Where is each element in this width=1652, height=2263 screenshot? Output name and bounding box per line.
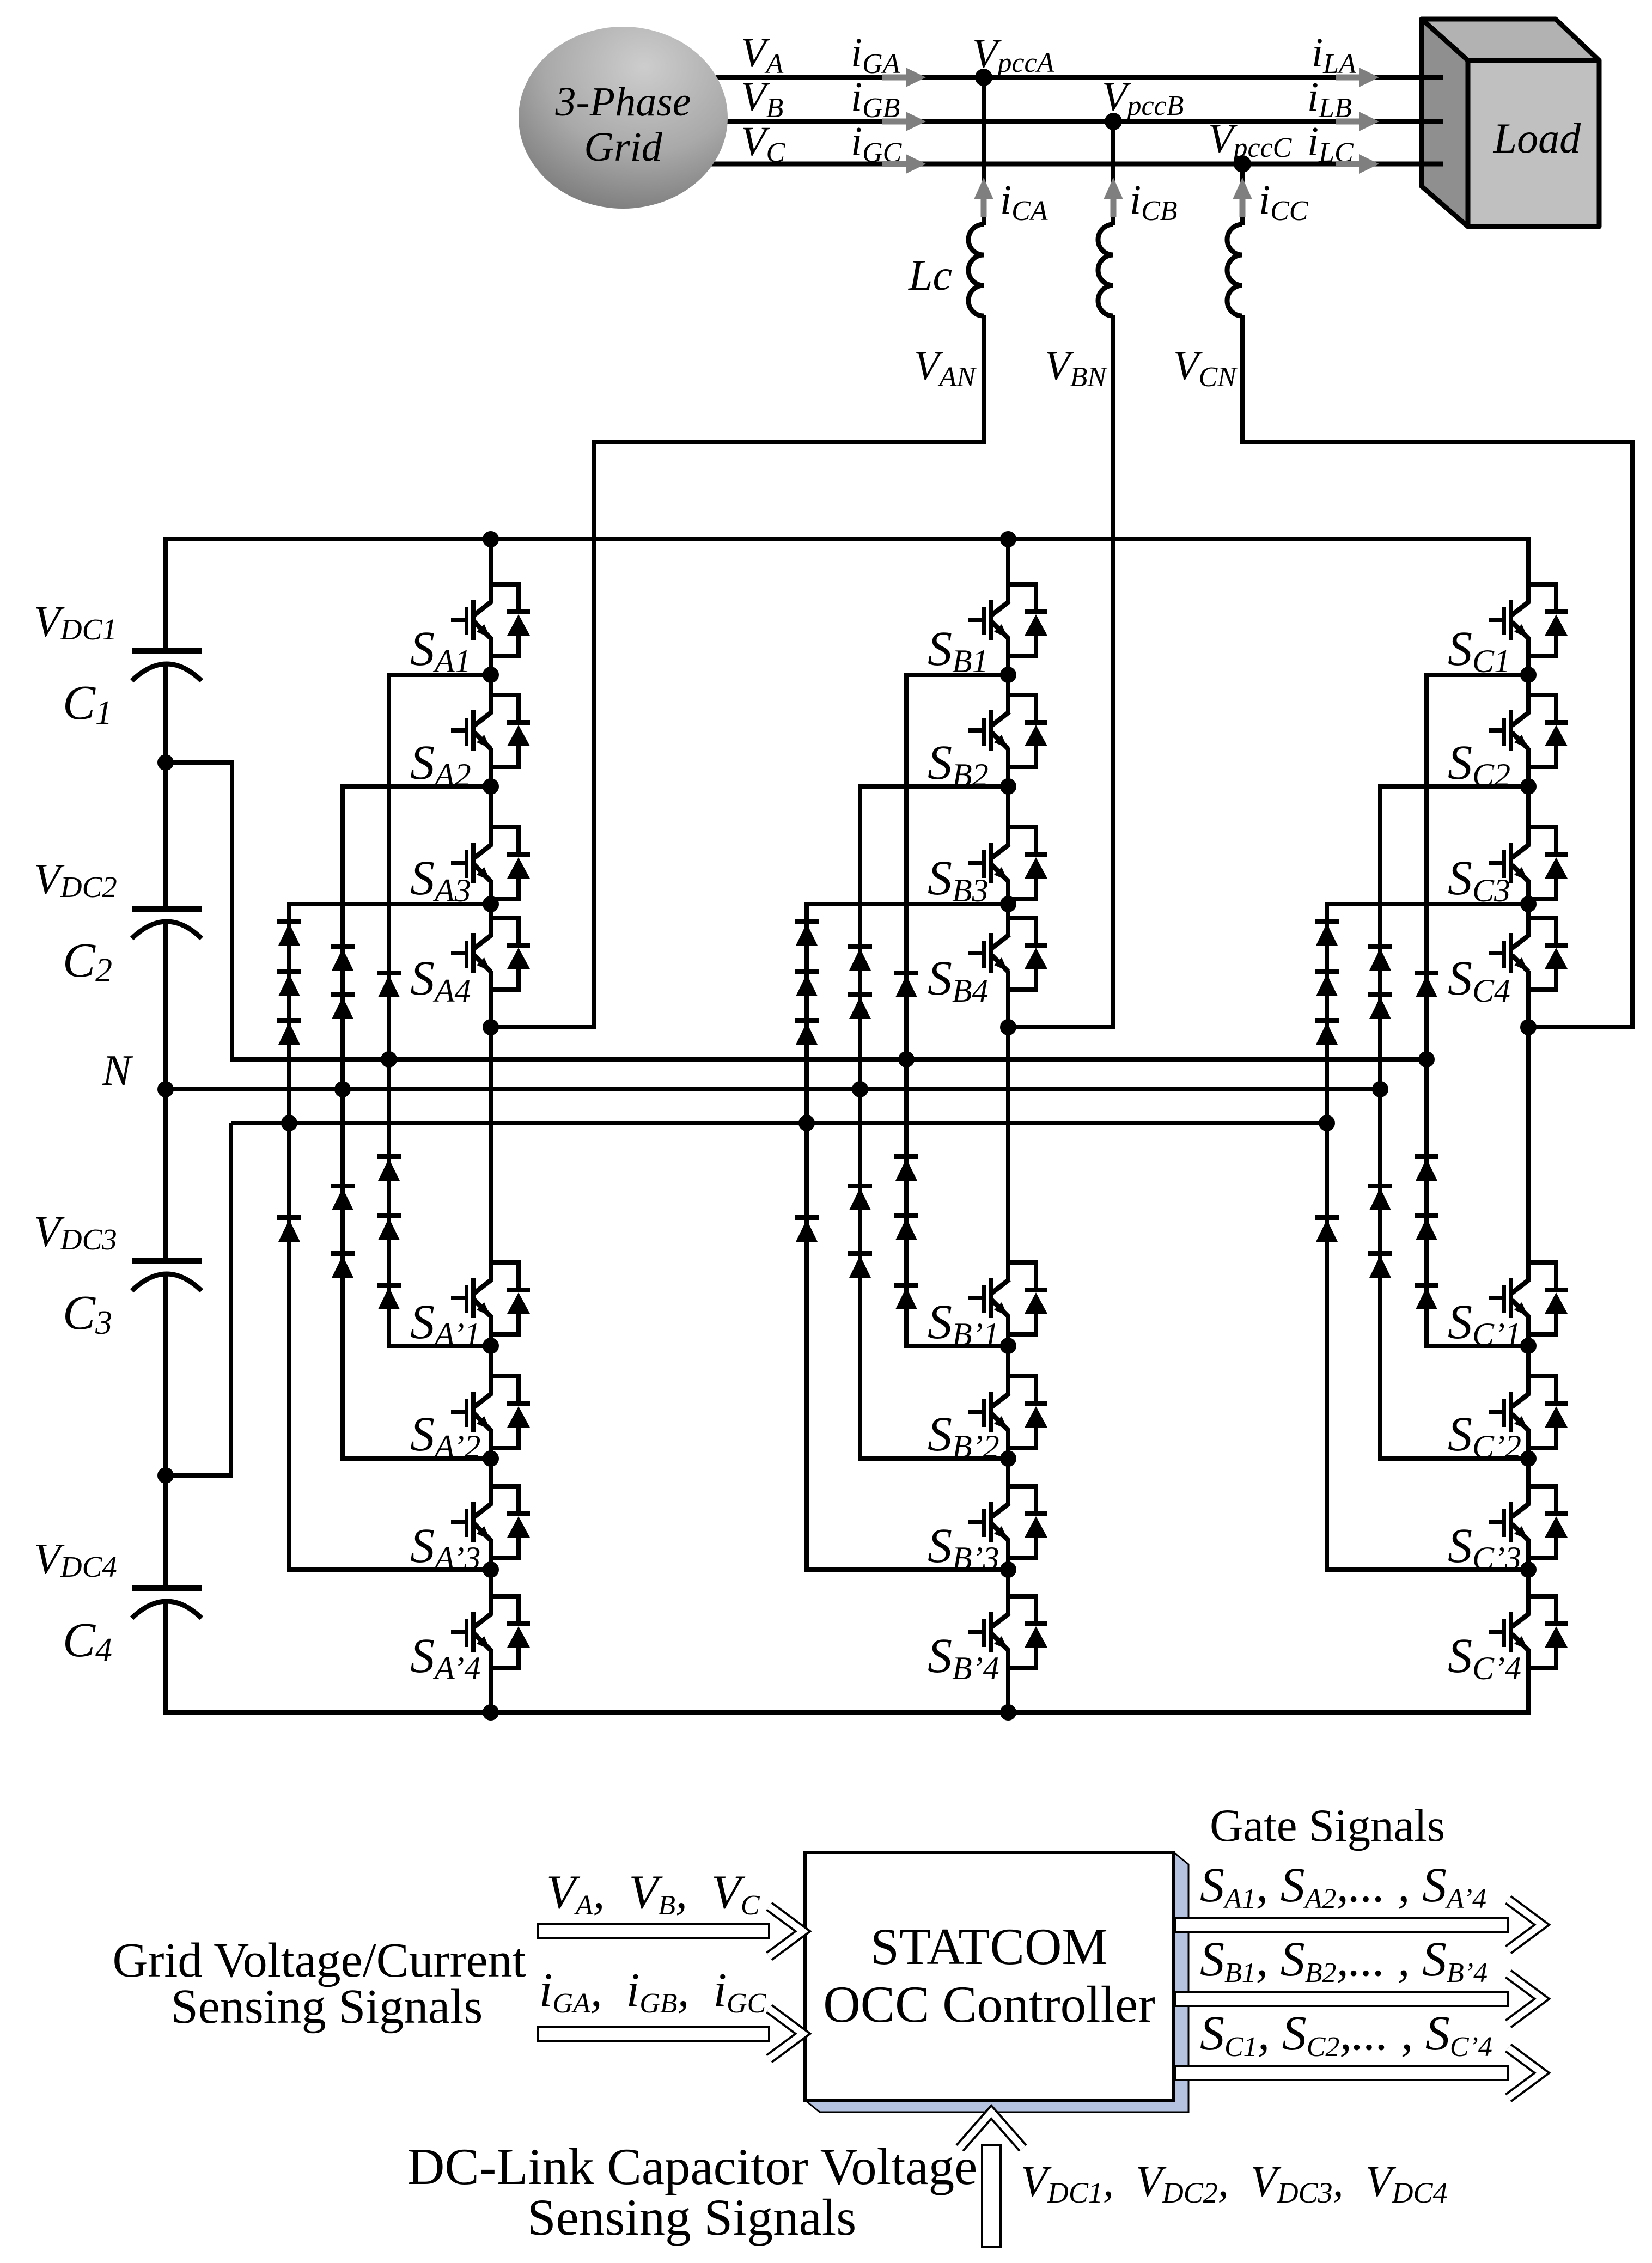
- wire C leg segment below SC3: [1526, 880, 1531, 906]
- clamp diode phase B lower chain1 #2: [894, 1213, 918, 1240]
- node phase C S1p-S2p: [1520, 1338, 1537, 1354]
- wire clamp chain 2 vertical phase C: [1378, 786, 1382, 1459]
- inductor Lc phase B: [1098, 224, 1113, 316]
- node chain3-line3 phase B: [798, 1115, 815, 1131]
- wire clamp chain to junction SC’3-SC’4: [1325, 1567, 1528, 1572]
- svg-text:Lc: Lc: [908, 252, 952, 300]
- wire clamp chain 1 vertical phase B: [904, 675, 909, 1346]
- wire B leg segment below SB’1: [1006, 1315, 1010, 1348]
- clamp diode phase C upper chain1 #1: [1415, 971, 1438, 997]
- clamp diode phase B upper chain3 #3: [795, 1018, 819, 1045]
- wire junction SC3-SC4 to clamp chain: [1325, 902, 1528, 906]
- wire tap1 to +1 bus: [166, 763, 232, 1059]
- transistor SC1 (IGBT with antiparallel diode): [1489, 582, 1568, 658]
- svg-text:Grid: Grid: [584, 124, 663, 170]
- wire junction SC1-SC2 to clamp chain: [1424, 673, 1528, 677]
- clamp diode phase A upper chain2 #1: [331, 944, 355, 971]
- wire B leg segment above SB’1: [1006, 1027, 1010, 1280]
- current arrow iCB: [1104, 178, 1123, 217]
- wire clamp chain to junction SA’2-SA’3: [340, 1456, 491, 1461]
- node phase B output: [1000, 1019, 1016, 1035]
- wire clamp chain to junction SC’1-SC’2: [1424, 1344, 1528, 1348]
- svg-text:Gate Signals: Gate Signals: [1210, 1800, 1445, 1851]
- current arrow iCA: [974, 178, 993, 217]
- output arrow gate signals phase A: [1175, 1918, 1508, 1932]
- wire +1 clamp bus (line1): [230, 1057, 1427, 1062]
- wire N bus: [166, 1087, 1380, 1091]
- node VpccB: [1105, 113, 1122, 130]
- current arrow iLC: [1336, 154, 1379, 174]
- wire grid phase B line (VB to load): [681, 119, 1443, 124]
- clamp diode phase B upper chain2 #2: [848, 992, 872, 1019]
- wire B leg segment below SB1: [1006, 637, 1010, 677]
- node chain2-N phase B: [852, 1081, 868, 1097]
- input arrow grid currents: [538, 2027, 769, 2041]
- wire inductor B to phase B output: [1008, 315, 1113, 1027]
- node phase C S3-S4: [1520, 896, 1537, 912]
- node bottom rail phase B: [1000, 1704, 1016, 1721]
- wire B leg segment below SB’2: [1006, 1429, 1010, 1461]
- node chain1-line1 phase C: [1418, 1051, 1435, 1068]
- transistor SC’1 (IGBT with antiparallel diode): [1489, 1260, 1568, 1337]
- wire C leg segment above SC’3: [1526, 1459, 1531, 1504]
- clamp diode phase C lower chain1 #3: [1415, 1283, 1438, 1309]
- wire junction SA2-SA3 to clamp chain: [340, 784, 491, 789]
- wire clamp chain to junction SA’1-SA’2: [387, 1344, 491, 1348]
- wire clamp chain 3 vertical phase C: [1325, 904, 1329, 1570]
- node phase A S2-S3: [483, 778, 499, 795]
- clamp diode phase B upper chain1 #1: [894, 971, 918, 997]
- node tap3 (C3-C4 junction): [157, 1467, 174, 1484]
- wire C leg segment below SC’1: [1526, 1315, 1531, 1348]
- wire VpccA to inductor A: [982, 77, 986, 225]
- transistor SA4 (IGBT with antiparallel diode): [451, 916, 530, 992]
- wire clamp chain to junction SA’3-SA’4: [287, 1567, 491, 1572]
- wire C leg segment above SC1: [1526, 539, 1531, 602]
- svg-text:3-Phase: 3-Phase: [554, 79, 691, 125]
- clamp diode phase C lower chain2 #1: [1368, 1184, 1392, 1210]
- wire left DC bus segment 5: [163, 1601, 168, 1715]
- transistor SC’3 (IGBT with antiparallel diode): [1489, 1484, 1568, 1560]
- current arrow iLB: [1336, 112, 1379, 131]
- wire clamp chain to junction SB’2-SB’3: [858, 1456, 1008, 1461]
- transistor SC’2 (IGBT with antiparallel diode): [1489, 1374, 1568, 1450]
- transistor SB4 (IGBT with antiparallel diode): [968, 916, 1047, 992]
- wire C leg segment above SC’1: [1526, 1027, 1531, 1280]
- wire A leg segment below SA’3: [489, 1539, 493, 1572]
- clamp diode phase C upper chain3 #2: [1315, 969, 1339, 996]
- wire A leg segment below SA4: [489, 971, 493, 1029]
- node chain2-N phase A: [334, 1081, 351, 1097]
- node chain1-line1 phase B: [898, 1051, 915, 1068]
- wire C leg segment above SC2: [1526, 675, 1531, 713]
- node chain2-N phase C: [1372, 1081, 1388, 1097]
- clamp diode phase A upper chain2 #2: [331, 992, 355, 1019]
- wire B leg segment above SB1: [1006, 539, 1010, 602]
- transistor SA’4 (IGBT with antiparallel diode): [451, 1594, 530, 1670]
- wire B leg segment below SB2: [1006, 748, 1010, 789]
- wire bottom DC rail: [163, 1710, 1531, 1715]
- wire A leg segment above SA’1: [489, 1027, 493, 1280]
- node phase B S2-S3: [1000, 778, 1016, 795]
- wire load stub B: [1422, 119, 1443, 124]
- transistor SB1 (IGBT with antiparallel diode): [968, 582, 1047, 658]
- transistor SC2 (IGBT with antiparallel diode): [1489, 693, 1568, 769]
- wire left DC bus segment 3: [163, 922, 168, 1258]
- wire A leg segment above SA3: [489, 786, 493, 845]
- clamp diode phase B lower chain3 #1: [795, 1215, 819, 1242]
- transistor SB’3 (IGBT with antiparallel diode): [968, 1484, 1047, 1560]
- wire C leg segment above SC4: [1526, 904, 1531, 936]
- transistor SA3 (IGBT with antiparallel diode): [451, 825, 530, 901]
- node phase B S2p-S3p: [1000, 1450, 1016, 1467]
- wire A leg segment below SA’1: [489, 1315, 493, 1348]
- wire B leg segment above SB’4: [1006, 1570, 1010, 1614]
- node phase B S3p-S4p: [1000, 1561, 1016, 1578]
- wire clamp chain 1 vertical phase A: [387, 675, 391, 1346]
- clamp diode phase C upper chain2 #1: [1368, 944, 1392, 971]
- transistor SB’4 (IGBT with antiparallel diode): [968, 1594, 1047, 1670]
- controller shadow: [805, 1852, 1188, 2112]
- node VpccC: [1234, 155, 1251, 173]
- capacitor C1: [132, 648, 202, 654]
- wire left DC bus segment 1: [163, 537, 168, 648]
- wire B leg segment above SB’3: [1006, 1459, 1010, 1504]
- transistor SC’4 (IGBT with antiparallel diode): [1489, 1594, 1568, 1670]
- current arrow iGB: [882, 112, 926, 131]
- svg-text:Load: Load: [1493, 114, 1581, 162]
- clamp diode phase B lower chain2 #1: [848, 1184, 872, 1210]
- wire C leg segment below SC2: [1526, 748, 1531, 789]
- clamp diode phase B lower chain2 #2: [848, 1251, 872, 1278]
- wire VpccB to inductor B: [1111, 121, 1115, 225]
- svg-text:Sensing Signals: Sensing Signals: [171, 1980, 483, 2034]
- wire load stub A: [1422, 75, 1443, 80]
- clamp diode phase A lower chain1 #1: [377, 1154, 401, 1181]
- node phase C S1-S2: [1520, 667, 1537, 683]
- clamp diode phase C lower chain1 #2: [1415, 1213, 1438, 1240]
- op-amp STATCOM OCC controller block: [805, 1852, 1174, 2100]
- wire clamp chain 1 vertical phase C: [1424, 675, 1429, 1346]
- wire A leg segment below SA’4: [489, 1649, 493, 1715]
- capacitor C4: [132, 1585, 202, 1591]
- wire B leg segment below SB4: [1006, 971, 1010, 1029]
- wire A leg segment below SA3: [489, 880, 493, 906]
- node VpccA: [975, 69, 992, 86]
- wire -1 clamp bus (line3): [231, 1121, 1327, 1125]
- clamp diode phase B lower chain1 #3: [894, 1283, 918, 1309]
- wire A leg segment below SA2: [489, 748, 493, 789]
- wire junction SC2-SC3 to clamp chain: [1378, 784, 1528, 789]
- node tap1 (C1-C2 junction): [157, 754, 174, 771]
- transistor SC3 (IGBT with antiparallel diode): [1489, 825, 1568, 901]
- wire clamp chain 2 vertical phase B: [858, 786, 862, 1459]
- svg-text:DC-Link Capacitor Voltage: DC-Link Capacitor Voltage: [407, 2138, 978, 2195]
- wire VpccC to inductor C: [1240, 164, 1245, 225]
- wire clamp chain to junction SB’1-SB’2: [904, 1344, 1008, 1348]
- node chain1-line1 phase A: [381, 1051, 397, 1068]
- node phase C S2-S3: [1520, 778, 1537, 795]
- clamp diode phase A lower chain1 #2: [377, 1213, 401, 1240]
- output arrow gate signals phase C: [1175, 2066, 1508, 2080]
- wire C leg segment below SC1: [1526, 637, 1531, 677]
- node bottom rail phase A: [483, 1704, 499, 1721]
- node top rail phase A: [483, 531, 499, 547]
- clamp diode phase A upper chain3 #1: [277, 919, 301, 946]
- clamp diode phase A lower chain3 #1: [277, 1215, 301, 1242]
- wire left DC bus segment 4: [163, 1274, 168, 1585]
- capacitor C2: [132, 906, 202, 912]
- node phase A S2p-S3p: [483, 1450, 499, 1467]
- wire B leg segment below SB3: [1006, 880, 1010, 906]
- clamp diode phase B upper chain3 #2: [795, 969, 819, 996]
- capacitor C3: [132, 1258, 202, 1264]
- wire C leg segment below SC’2: [1526, 1429, 1531, 1461]
- current arrow iCC: [1233, 178, 1252, 217]
- wire A leg segment above SA1: [489, 539, 493, 602]
- transistor SA2 (IGBT with antiparallel diode): [451, 693, 530, 769]
- wire tap3 to -1 bus: [166, 1123, 231, 1475]
- node phase C S2p-S3p: [1520, 1450, 1537, 1467]
- wire C leg segment above SC3: [1526, 786, 1531, 845]
- wire C leg segment below SC’4: [1526, 1649, 1531, 1715]
- wire top DC rail: [163, 537, 1531, 541]
- wire junction SA3-SA4 to clamp chain: [287, 902, 491, 906]
- wire B leg segment below SB’3: [1006, 1539, 1010, 1572]
- wire grid phase C line (VC to load): [681, 162, 1443, 167]
- wire B leg segment above SB’2: [1006, 1346, 1010, 1394]
- wire inductor C to phase C output: [1242, 315, 1632, 1027]
- node phase A output: [483, 1019, 499, 1035]
- inductor Lc phase C: [1227, 224, 1242, 316]
- clamp diode phase C lower chain1 #1: [1415, 1154, 1438, 1181]
- transistor SB2 (IGBT with antiparallel diode): [968, 693, 1047, 769]
- transistor SB’2 (IGBT with antiparallel diode): [968, 1374, 1047, 1450]
- clamp diode phase B upper chain2 #1: [848, 944, 872, 971]
- wire A leg segment above SA4: [489, 904, 493, 936]
- wire clamp chain to junction SC’2-SC’3: [1378, 1456, 1528, 1461]
- node phase C output: [1520, 1019, 1537, 1035]
- node phase C S3p-S4p: [1520, 1561, 1537, 1578]
- wire B leg segment above SB2: [1006, 675, 1010, 713]
- wire B leg segment above SB4: [1006, 904, 1010, 936]
- wire clamp chain 3 vertical phase A: [287, 904, 291, 1570]
- node phase A S3p-S4p: [483, 1561, 499, 1578]
- input arrow DC-link voltages: [982, 2145, 1001, 2247]
- svg-text:N: N: [102, 1047, 134, 1095]
- wire C leg segment below SC4: [1526, 971, 1531, 1029]
- clamp diode phase C upper chain3 #3: [1315, 1018, 1339, 1045]
- transistor SB3 (IGBT with antiparallel diode): [968, 825, 1047, 901]
- svg-text:OCC Controller: OCC Controller: [823, 1975, 1155, 2033]
- node phase A S1p-S2p: [483, 1338, 499, 1354]
- wire left DC bus segment 2: [163, 664, 168, 906]
- node chain3-line3 phase A: [281, 1115, 297, 1131]
- current arrow iGC: [882, 154, 926, 174]
- wire A leg segment above SA2: [489, 675, 493, 713]
- node phase B S1-S2: [1000, 667, 1016, 683]
- clamp diode phase B upper chain3 #1: [795, 919, 819, 946]
- wire inductor A to phase A output: [491, 315, 984, 1027]
- transistor SB’1 (IGBT with antiparallel diode): [968, 1260, 1047, 1337]
- wire A leg segment above SA’4: [489, 1570, 493, 1614]
- wire A leg segment below SA1: [489, 637, 493, 677]
- wire clamp chain to junction SB’3-SB’4: [804, 1567, 1008, 1572]
- wire clamp chain 2 vertical phase A: [340, 786, 345, 1459]
- node phase B S1p-S2p: [1000, 1338, 1016, 1354]
- clamp diode phase A upper chain3 #2: [277, 969, 301, 996]
- input arrow grid voltages: [538, 1924, 769, 1938]
- wire clamp chain 3 vertical phase B: [804, 904, 809, 1570]
- node N (left bus): [157, 1081, 174, 1097]
- clamp diode phase A upper chain1 #1: [377, 971, 401, 997]
- wire A leg segment above SA’3: [489, 1459, 493, 1504]
- clamp diode phase A lower chain2 #2: [331, 1251, 355, 1278]
- wire C leg segment above SC’4: [1526, 1570, 1531, 1614]
- wire B leg segment above SB3: [1006, 786, 1010, 845]
- transistor SA’2 (IGBT with antiparallel diode): [451, 1374, 530, 1450]
- svg-text:Sensing Signals: Sensing Signals: [527, 2188, 856, 2246]
- clamp diode phase A lower chain1 #3: [377, 1283, 401, 1309]
- wire junction SB2-SB3 to clamp chain: [858, 784, 1008, 789]
- clamp diode phase C lower chain2 #2: [1368, 1251, 1392, 1278]
- clamp diode phase C upper chain2 #2: [1368, 992, 1392, 1019]
- wire A leg segment above SA’2: [489, 1346, 493, 1394]
- clamp diode phase C upper chain3 #1: [1315, 919, 1339, 946]
- wire junction SB3-SB4 to clamp chain: [804, 902, 1008, 906]
- clamp diode phase B lower chain1 #1: [894, 1154, 918, 1181]
- clamp diode phase A upper chain3 #3: [277, 1018, 301, 1045]
- node top rail phase B: [1000, 531, 1016, 547]
- wire B leg segment below SB’4: [1006, 1649, 1010, 1715]
- current arrow iLA: [1336, 68, 1379, 87]
- transistor SA’3 (IGBT with antiparallel diode): [451, 1484, 530, 1560]
- wire C leg segment above SC’2: [1526, 1346, 1531, 1394]
- transistor SA’1 (IGBT with antiparallel diode): [451, 1260, 530, 1337]
- node phase A S1-S2: [483, 667, 499, 683]
- node phase B S3-S4: [1000, 896, 1016, 912]
- node phase A S3-S4: [483, 896, 499, 912]
- output arrow gate signals phase B: [1175, 1992, 1508, 2006]
- wire A leg segment below SA’2: [489, 1429, 493, 1461]
- svg-text:STATCOM: STATCOM: [870, 1918, 1108, 1975]
- wire junction SB1-SB2 to clamp chain: [904, 673, 1008, 677]
- inductor Lc phase A: [968, 224, 984, 316]
- clamp diode phase C lower chain3 #1: [1315, 1215, 1339, 1242]
- node chain3-line3 phase C: [1319, 1115, 1335, 1131]
- load block: [1422, 19, 1599, 227]
- clamp diode phase A lower chain2 #1: [331, 1184, 355, 1210]
- wire grid phase A line (VA to load): [681, 75, 1443, 80]
- wire load stub C: [1422, 162, 1443, 167]
- 3-phase grid source: [519, 27, 728, 209]
- wire C leg segment below SC’3: [1526, 1539, 1531, 1572]
- transistor SC4 (IGBT with antiparallel diode): [1489, 916, 1568, 992]
- current arrow iGA: [882, 68, 926, 87]
- transistor SA1 (IGBT with antiparallel diode): [451, 582, 530, 658]
- wire junction SA1-SA2 to clamp chain: [387, 673, 491, 677]
